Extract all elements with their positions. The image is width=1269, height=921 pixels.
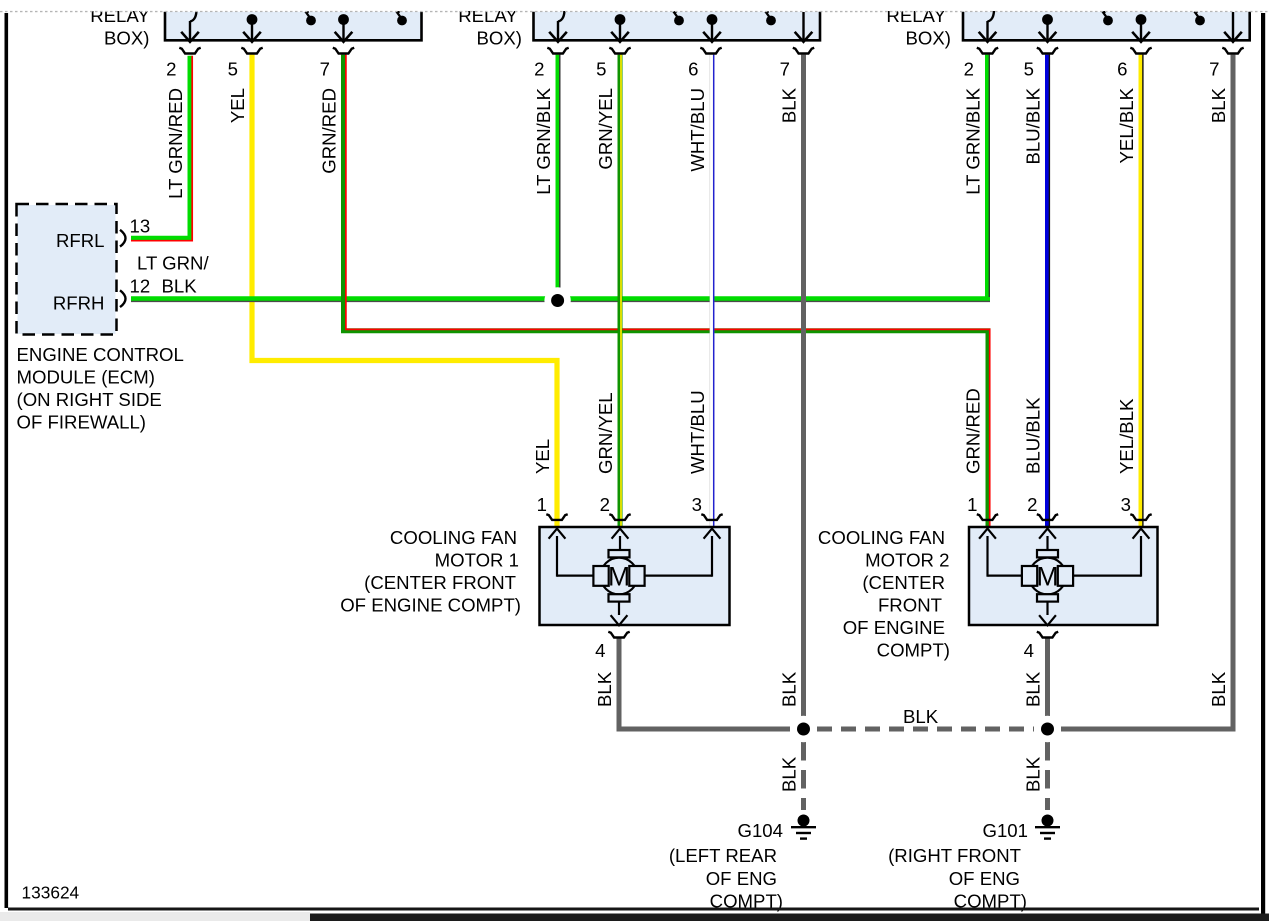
relay 1 pin5 contact arrow [243, 14, 261, 42]
fan motor 2 pin2 arrow [1039, 529, 1056, 551]
ECM pin RFRH label [53, 293, 105, 314]
relay 2 pin2 coil arrow [549, 10, 567, 42]
wire WHT/BLU relay2 pin6 to fan1 pin3 [712, 55, 714, 526]
wire GRN/YEL relay2 pin5 to fan1 pin2 [620, 55, 621, 526]
ground G104 [791, 815, 816, 839]
relay box 3 fill [963, 12, 1250, 42]
relay box 3 border [963, 12, 1250, 41]
svg-text:BLK: BLK [779, 756, 800, 792]
connector cup fan1 pin1 [546, 514, 567, 520]
svg-text:M: M [1036, 562, 1058, 592]
relay box 1 label [90, 5, 150, 49]
svg-text:BOX): BOX) [906, 27, 951, 48]
fan motor 2 caption [818, 527, 950, 661]
fan motor 1 pin3 arrow [704, 529, 721, 577]
svg-text:MOTOR 2: MOTOR 2 [865, 550, 949, 571]
wire labels top row (rotated) [165, 87, 1229, 198]
svg-text:BLU/BLK: BLU/BLK [1023, 397, 1044, 474]
svg-text:BLK: BLK [1023, 756, 1044, 792]
pin numbers fans [537, 494, 1131, 661]
svg-text:5: 5 [596, 59, 606, 80]
relay 1 pin2 coil arrow [181, 10, 199, 42]
svg-text:1: 1 [967, 494, 977, 515]
wire BLK dashed drop to G104 [801, 742, 806, 810]
wire BLU/BLK relay3 pin5 to fan2 pin2 [1048, 55, 1050, 526]
svg-text:5: 5 [1024, 59, 1034, 80]
relay 3 movable contact b [1195, 11, 1205, 25]
svg-text:G104: G104 [738, 820, 784, 841]
svg-text:BLK: BLK [903, 706, 939, 727]
pin numbers top row [166, 59, 1219, 80]
connector cup fan1 pin2 [609, 514, 630, 520]
wire BLK fan2 pin4 to junction [1045, 637, 1050, 716]
fan motor 1 pin4 arrow [611, 615, 628, 625]
svg-text:BLU/BLK: BLU/BLK [1023, 87, 1044, 164]
svg-text:BOX): BOX) [477, 27, 522, 48]
svg-text:YEL/BLK: YEL/BLK [1116, 87, 1137, 163]
svg-text:COOLING FAN: COOLING FAN [390, 527, 517, 548]
svg-text:3: 3 [692, 494, 702, 515]
svg-text:BLK: BLK [1208, 87, 1229, 123]
wire LT GRN/RED relay1 pin2 to ECM pin13 [131, 56, 192, 241]
fan motor 1 pin2 arrow [612, 529, 629, 551]
frame bottom line [8, 908, 1259, 911]
svg-text:COMPT): COMPT) [877, 640, 950, 661]
connector cup relay1 pin5 [241, 48, 262, 54]
wire BLK dashed horizontal [817, 727, 1034, 732]
svg-text:(CENTER FRONT: (CENTER FRONT [364, 572, 516, 593]
relay 2 pin5 contact arrow [611, 14, 629, 42]
svg-text:YEL: YEL [532, 439, 553, 474]
relay 3 pin2 coil arrow [979, 10, 997, 42]
svg-text:BLK: BLK [1023, 671, 1044, 707]
ECM pin 12 number [130, 276, 151, 297]
connector cup fan1 pin3 [701, 514, 722, 520]
svg-text:ENGINE CONTROL: ENGINE CONTROL [17, 344, 184, 365]
svg-text:2: 2 [600, 494, 610, 515]
svg-text:COOLING FAN: COOLING FAN [818, 527, 945, 548]
fan motor 2 pin1 arrow [979, 529, 996, 577]
svg-text:BOX): BOX) [104, 27, 149, 48]
fan motor 1 box [540, 527, 730, 625]
ground G101 [1035, 815, 1060, 839]
connector cup fan2 pin4 [1037, 632, 1058, 638]
fan motor 2 pin4 arrow [1039, 615, 1056, 625]
svg-text:YEL/BLK: YEL/BLK [1116, 398, 1137, 474]
page cut mask above top edge [0, 0, 1269, 12]
wire LT GRN/BLK ECM pin12 horizontal run [131, 299, 990, 302]
svg-text:12: 12 [130, 276, 151, 297]
connector cup relay2 pin2 [547, 48, 568, 54]
wire labels above fans (rotated) [532, 388, 1137, 474]
relay 3 movable contact [1103, 11, 1113, 25]
svg-text:4: 4 [1024, 640, 1034, 661]
svg-text:OF ENGINE COMPT): OF ENGINE COMPT) [340, 595, 521, 616]
connector cup relay3 pin6 [1130, 48, 1151, 54]
ECM caption [17, 344, 184, 433]
relay box 1 border [165, 12, 422, 41]
relay 1 pin7 contact arrow [335, 14, 353, 42]
relay 2 movable contact [674, 11, 684, 25]
wire label BLK dashed horizontal [903, 706, 939, 727]
ground G101 label [888, 820, 1028, 912]
frame bottom dark bar [310, 914, 1269, 921]
svg-text:6: 6 [688, 59, 698, 80]
svg-text:G101: G101 [983, 820, 1029, 841]
relay box 2 fill [534, 12, 821, 42]
connector cup relay1 pin2 [179, 48, 200, 54]
svg-text:2: 2 [534, 59, 544, 80]
svg-text:GRN/YEL: GRN/YEL [595, 88, 616, 170]
svg-text:OF FIREWALL): OF FIREWALL) [17, 412, 146, 433]
connector cup relay1 pin7 [333, 48, 354, 54]
relay 3 pin7 arrow [1224, 12, 1242, 42]
relay box 3 label [886, 5, 951, 49]
frame left bar [5, 13, 9, 908]
wire YEL/BLK relay3 pin6 to fan2 pin3 [1141, 55, 1143, 526]
svg-text:(CENTER: (CENTER [862, 572, 945, 593]
wire BLK fan1 pin4 to junction [619, 637, 790, 729]
svg-text:7: 7 [780, 59, 790, 80]
wire LT GRN/BLK relay3 pin2 vertical [988, 55, 990, 299]
svg-text:MODULE (ECM): MODULE (ECM) [17, 367, 155, 388]
relay 2 pin6 contact arrow [703, 14, 721, 42]
svg-text:OF ENGINE: OF ENGINE [843, 617, 945, 638]
relay 2 movable contact b [766, 11, 776, 25]
relay 2 pin7 arrow [795, 12, 813, 42]
svg-text:4: 4 [595, 640, 605, 661]
junction B (left BLK splice) [790, 716, 816, 742]
relay box 2 border [534, 12, 821, 41]
connector cup fan2 pin1 [977, 514, 998, 520]
svg-text:GRN/YEL: GRN/YEL [595, 392, 616, 474]
wire label LT GRN/BLK (ECM) [137, 253, 209, 297]
connector cup relay3 pin7 [1222, 48, 1243, 54]
frame right bar [1261, 13, 1265, 914]
svg-text:M: M [608, 562, 630, 592]
frame bottom-left strip [0, 912, 310, 921]
junction A (green splice) [544, 287, 570, 313]
svg-text:7: 7 [320, 59, 330, 80]
svg-text:LT GRN/RED: LT GRN/RED [165, 88, 186, 199]
svg-text:WHT/BLU: WHT/BLU [687, 390, 708, 474]
svg-text:(ON RIGHT SIDE: (ON RIGHT SIDE [17, 389, 162, 410]
svg-text:YEL: YEL [227, 88, 248, 123]
ECM box dashed border [17, 204, 117, 335]
svg-text:5: 5 [228, 59, 238, 80]
svg-text:LT GRN/: LT GRN/ [137, 253, 209, 274]
fan motor 1 internal wires [557, 576, 712, 615]
ECM pin RFRL label [56, 230, 105, 251]
connector cup fan2 pin2 [1037, 514, 1058, 520]
svg-text:133624: 133624 [22, 883, 80, 903]
fan motor 2 pin3 arrow [1133, 529, 1150, 577]
svg-text:BLK: BLK [162, 276, 198, 297]
wire YEL relay1 pin5 to fan1 pin1 [252, 55, 557, 526]
ECM box fill [18, 205, 116, 334]
svg-text:WHT/BLU: WHT/BLU [687, 88, 708, 172]
relay box 1 fill [165, 12, 422, 42]
connector cup relay2 pin6 [700, 48, 721, 54]
svg-text:2: 2 [1027, 494, 1037, 515]
svg-text:MOTOR 1: MOTOR 1 [435, 550, 519, 571]
svg-text:BLK: BLK [1208, 671, 1229, 707]
svg-text:(LEFT REAR: (LEFT REAR [669, 845, 777, 866]
sheet number [22, 883, 80, 903]
svg-text:6: 6 [1117, 59, 1127, 80]
svg-text:(RIGHT FRONT: (RIGHT FRONT [888, 845, 1021, 866]
fan motor 2 box [969, 527, 1158, 625]
svg-text:OF ENG: OF ENG [949, 868, 1020, 889]
ECM pin 13 connector [120, 230, 126, 247]
svg-text:BLK: BLK [779, 87, 800, 123]
wire BLK relay2 pin7 to junction [801, 55, 806, 716]
svg-text:RFRL: RFRL [56, 230, 105, 251]
svg-text:13: 13 [130, 216, 151, 237]
svg-text:2: 2 [964, 59, 974, 80]
connector cup fan1 pin4 [608, 632, 629, 638]
wire BLK dashed drop to G101 [1045, 742, 1050, 810]
ECM pin 13 number [130, 216, 151, 237]
svg-text:BLK: BLK [594, 671, 615, 707]
relay 3 pin6 contact arrow [1132, 14, 1150, 42]
connector cup fan2 pin3 [1130, 514, 1151, 520]
connector cup relay3 pin2 [977, 48, 998, 54]
svg-text:1: 1 [537, 494, 547, 515]
wire LT GRN/BLK relay2 pin2 to junction [558, 55, 560, 290]
fan motor 1 pin1 arrow [549, 529, 566, 577]
fan motor 1 caption [340, 527, 521, 616]
svg-text:GRN/RED: GRN/RED [963, 388, 984, 474]
ground G104 label [669, 820, 783, 912]
connector cup relay2 pin7 [793, 48, 814, 54]
svg-text:FRONT: FRONT [878, 595, 942, 616]
connector cup relay3 pin5 [1037, 48, 1058, 54]
svg-text:3: 3 [1121, 494, 1131, 515]
svg-text:LT GRN/BLK: LT GRN/BLK [963, 87, 984, 194]
svg-text:OF ENG: OF ENG [706, 868, 777, 889]
ECM pin 12 connector [120, 290, 126, 307]
fan motor 2 internal wires [988, 576, 1142, 615]
wire GRN/RED relay1 pin7 to fan2 pin1 [344, 55, 990, 526]
relay 3 pin5 contact arrow [1039, 14, 1057, 42]
svg-text:RFRH: RFRH [53, 293, 105, 314]
svg-text:GRN/RED: GRN/RED [319, 88, 340, 174]
svg-text:2: 2 [166, 59, 176, 80]
wire labels BLK bottom (rotated) [594, 671, 1229, 792]
wire BLK relay3 pin7 to junction [1061, 55, 1233, 729]
junction C (right BLK splice) [1034, 716, 1060, 742]
relay 1 movable contact b [397, 11, 407, 25]
page top dotted edge [0, 11, 1269, 13]
svg-text:LT GRN/BLK: LT GRN/BLK [533, 87, 554, 194]
fan motor 1 motor symbol M1 [593, 550, 644, 602]
fan motor 2 motor symbol M2 [1022, 550, 1073, 602]
svg-text:7: 7 [1209, 59, 1219, 80]
connector cup relay2 pin5 [609, 48, 630, 54]
svg-text:BLK: BLK [779, 671, 800, 707]
relay 1 movable contact [306, 11, 316, 25]
relay box 2 label [458, 5, 522, 49]
